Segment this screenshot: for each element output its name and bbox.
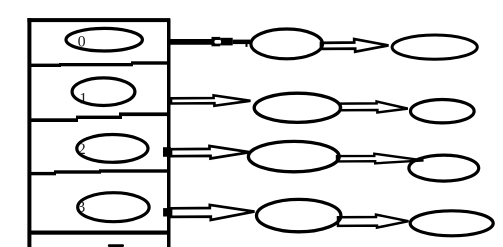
wire array left edge	[27, 18, 31, 247]
wire array right edge	[167, 19, 171, 247]
node row3 square	[163, 208, 171, 216]
node row3 first ellipse	[257, 199, 341, 231]
node bucket3 ellipse	[78, 193, 149, 222]
arrow bucket0 small	[212, 37, 251, 47]
node bucket0 ellipse	[66, 28, 142, 51]
wire bucket0 thick link	[170, 39, 214, 45]
arrow row1 second	[340, 102, 408, 113]
node row3 second ellipse	[410, 211, 493, 236]
node row1 first ellipse	[254, 93, 340, 122]
wire divider 2	[28, 112, 170, 122]
node row1 second ellipse	[411, 100, 475, 123]
arrow row3 first	[171, 205, 255, 220]
wire array top edge	[27, 18, 170, 22]
arrow row3 second	[338, 215, 409, 228]
arrow row0 second	[321, 39, 389, 52]
arrow row2 first	[171, 146, 250, 159]
node bucket2 ellipse	[77, 135, 148, 163]
wire divider 3	[28, 169, 170, 175]
node row2 second ellipse	[409, 155, 479, 181]
arrow row1 first	[171, 95, 251, 105]
node row0 second ellipse	[392, 35, 477, 59]
node row0 first ellipse	[251, 29, 323, 59]
wire divider 1	[28, 61, 170, 67]
node bucket4 partial ellipse top arc	[108, 244, 124, 247]
wire divider 4	[28, 231, 170, 235]
arrow row2 second	[337, 154, 424, 164]
node row2 first ellipse	[248, 141, 339, 171]
node row2 square	[163, 147, 171, 157]
node bucket1 ellipse	[72, 78, 135, 106]
